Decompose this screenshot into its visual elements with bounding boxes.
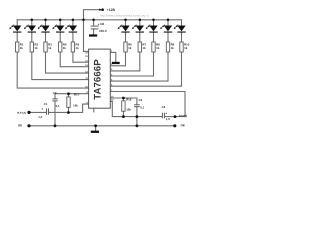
svg-text:1k: 1k [156,46,160,50]
svg-text:1,0: 1,0 [38,115,42,119]
svg-text:R17: R17 [74,93,80,97]
svg-text:1k: 1k [48,46,52,50]
svg-text:ПК: ПК [181,123,185,127]
svg-text:0,1: 0,1 [56,104,60,108]
svg-text:вход: вход [17,110,26,114]
svg-text:TA7666P: TA7666P [92,59,103,100]
svg-text:1k: 1k [34,46,38,50]
svg-text:+12В: +12В [107,8,116,12]
svg-text:1k: 1k [184,46,188,50]
svg-text:R18: R18 [126,97,132,101]
svg-text:C3: C3 [139,98,143,102]
svg-text:вход: вход [179,113,188,117]
svg-text:15k: 15k [126,108,131,112]
svg-text:1k: 1k [20,46,24,50]
svg-text:100.0: 100.0 [99,29,107,33]
svg-text:+: + [41,107,43,111]
svg-text:1,0: 1,0 [166,117,170,121]
svg-text:C8: C8 [100,22,104,26]
svg-text:ЛК: ЛК [18,123,22,127]
svg-text:1k: 1k [171,46,175,50]
svg-text:1k: 1k [76,46,80,50]
svg-text:0,1: 0,1 [140,105,144,109]
svg-text:+: + [165,111,167,115]
svg-text:httр://www.cxematehnika.narod.: httр://www.cxematehnika.narod.org.ru [100,13,149,17]
svg-text:15k: 15k [73,104,78,108]
svg-text:C4: C4 [162,105,166,109]
svg-text:1k: 1k [128,46,132,50]
svg-text:1k: 1k [142,46,146,50]
svg-text:C2: C2 [53,91,57,95]
svg-text:C1: C1 [44,102,48,106]
svg-text:1k: 1k [63,46,67,50]
